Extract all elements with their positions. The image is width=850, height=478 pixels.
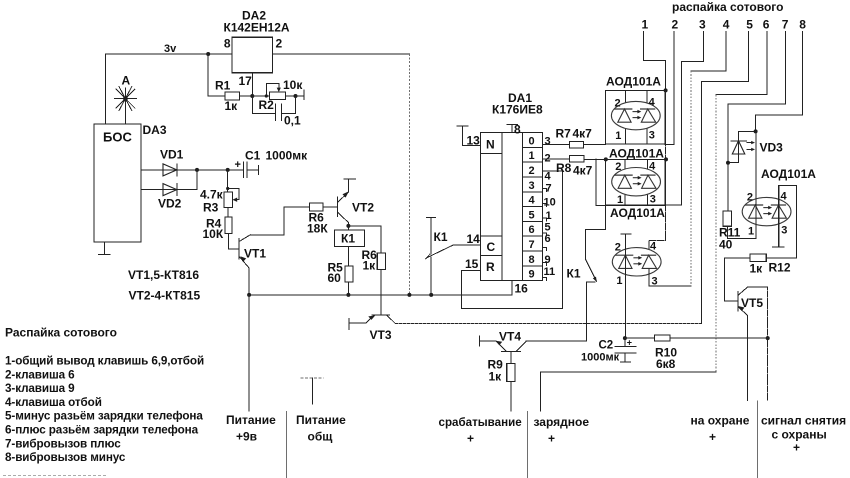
- relay contact K1 right: [586, 260, 597, 282]
- svg-text:5: 5: [746, 18, 753, 32]
- wire phone 5: [701, 32, 748, 324]
- svg-text:7-вибровызов плюс: 7-вибровызов плюс: [5, 437, 121, 450]
- svg-text:8: 8: [224, 37, 231, 51]
- svg-text:R12: R12: [769, 261, 791, 275]
- resistor R12 1к: [766, 257, 796, 259]
- svg-text:7: 7: [529, 239, 535, 251]
- svg-text:+: +: [627, 338, 632, 348]
- node dot bus/K1 contact: [429, 293, 433, 297]
- svg-text:3: 3: [545, 136, 551, 148]
- svg-text:1: 1: [616, 275, 622, 287]
- svg-text:VT1,5-КТ816: VT1,5-КТ816: [128, 268, 199, 282]
- svg-text:2: 2: [672, 18, 679, 32]
- wire rail descent to bus: [408, 54, 410, 295]
- svg-text:3: 3: [529, 180, 535, 192]
- wire DA1 pin15: [461, 269, 480, 271]
- wire node to C1: [197, 169, 244, 171]
- wire opto3 pin3 to phone4: [649, 269, 691, 286]
- svg-text:0: 0: [529, 135, 535, 147]
- svg-text:40: 40: [719, 238, 733, 252]
- svg-text:0,1: 0,1: [284, 114, 301, 128]
- svg-text:1: 1: [617, 194, 623, 206]
- svg-text:10: 10: [544, 197, 556, 209]
- resistor R3 4.7к potentiometer: [227, 170, 229, 192]
- resistor R1 1к: [208, 95, 225, 97]
- svg-text:11: 11: [544, 266, 556, 278]
- svg-text:VD3: VD3: [760, 141, 784, 155]
- svg-text:5-минус разьём зарядки телефон: 5-минус разьём зарядки телефона: [5, 410, 203, 423]
- svg-text:R3: R3: [203, 201, 219, 215]
- svg-text:8: 8: [514, 123, 521, 137]
- svg-text:60: 60: [328, 271, 342, 285]
- svg-text:3: 3: [781, 225, 787, 237]
- svg-text:DA3: DA3: [143, 123, 167, 137]
- svg-text:6: 6: [763, 18, 770, 32]
- svg-text:4: 4: [649, 160, 656, 172]
- terminal питание общ: [301, 377, 324, 379]
- svg-text:4к7: 4к7: [573, 164, 593, 178]
- svg-text:3: 3: [699, 18, 706, 32]
- resistor R6 1к: [377, 253, 385, 270]
- svg-text:срабатывание: срабатывание: [439, 416, 523, 429]
- node dot pin17/R1/R2: [250, 94, 254, 98]
- svg-text:с охраны: с охраны: [772, 428, 827, 442]
- svg-text:VD2: VD2: [158, 197, 182, 211]
- wire left vertical to DA3: [104, 54, 106, 124]
- DA1 output cell dividers: [522, 147, 542, 265]
- svg-text:4: 4: [649, 97, 656, 109]
- transistor VT5: [737, 292, 739, 311]
- separator line 1: [286, 411, 288, 478]
- svg-text:БОС: БОС: [103, 130, 132, 145]
- pinout list lines 1-8: [5, 355, 204, 465]
- svg-text:зарядное: зарядное: [534, 415, 590, 429]
- svg-text:1к: 1к: [225, 99, 239, 113]
- svg-text:R: R: [486, 260, 495, 274]
- svg-text:10к: 10к: [283, 78, 303, 92]
- svg-text:6: 6: [529, 224, 535, 236]
- svg-text:4.7к: 4.7к: [200, 188, 224, 202]
- svg-text:+: +: [235, 159, 241, 171]
- wire +9v top rail left: [105, 53, 232, 55]
- svg-text:6к8: 6к8: [656, 357, 676, 371]
- svg-text:VT5: VT5: [741, 296, 763, 310]
- wire R1 branch vertical: [207, 54, 209, 96]
- wire phone 1: [644, 32, 666, 91]
- svg-text:8-вибровызов минус: 8-вибровызов минус: [5, 451, 126, 464]
- svg-text:2: 2: [529, 165, 535, 177]
- svg-text:R1: R1: [215, 79, 231, 93]
- svg-text:Распайка сотового: Распайка сотового: [5, 326, 117, 340]
- svg-text:VD1: VD1: [160, 148, 184, 162]
- svg-text:N: N: [486, 138, 495, 152]
- svg-text:9: 9: [529, 269, 535, 281]
- svg-text:4-клавиша отбой: 4-клавиша отбой: [5, 396, 102, 409]
- svg-text:C1: C1: [245, 149, 261, 163]
- svg-text:распайка сотового: распайка сотового: [672, 0, 783, 14]
- svg-text:АОД101А: АОД101А: [609, 146, 664, 160]
- node dot bus/rail: [407, 293, 411, 297]
- wire reset net pin15 to pin4: [461, 171, 562, 308]
- wire DA2 pin17: [251, 73, 253, 96]
- svg-text:+: +: [548, 432, 555, 446]
- node dot VT2/K1/R6: [346, 224, 350, 228]
- svg-text:2-клавиша 6: 2-клавиша 6: [5, 368, 75, 381]
- svg-text:1к: 1к: [489, 370, 503, 384]
- separator line 2: [527, 411, 529, 478]
- svg-text:2: 2: [615, 161, 621, 173]
- svg-text:15: 15: [465, 257, 479, 271]
- op-amp DA2 box: [232, 37, 273, 72]
- DA1 pin13 terminal: [457, 125, 468, 127]
- svg-text:C: C: [487, 240, 496, 254]
- svg-text:Питание: Питание: [296, 413, 346, 427]
- node dot C1/R3 branch: [226, 168, 230, 172]
- wire opto3 pin1 to C2 node: [623, 336, 627, 340]
- svg-text:4: 4: [650, 241, 657, 253]
- svg-text:1к: 1к: [363, 259, 377, 273]
- terminal bar right of R2: [296, 95, 305, 97]
- svg-text:на охране: на охране: [691, 414, 750, 428]
- wire VT3 collector long line: [395, 323, 701, 325]
- wire bus up to DA1 pin16: [511, 281, 513, 295]
- DA1 pin8 terminal top: [511, 125, 513, 133]
- wire phone 3: [666, 32, 704, 206]
- relay contact K1 left: [426, 217, 435, 219]
- svg-text:R7: R7: [556, 127, 572, 141]
- IC DA3 БОС box: [94, 124, 141, 242]
- diode VD2: [141, 189, 197, 191]
- svg-text:1: 1: [529, 150, 535, 162]
- transistor VT2: [336, 197, 338, 217]
- capacitor C3 0,1: [251, 96, 253, 114]
- node junction dot rail/R1: [206, 52, 210, 56]
- svg-text:2: 2: [747, 191, 753, 203]
- svg-text:R8: R8: [556, 161, 572, 175]
- svg-text:VT4: VT4: [499, 330, 521, 344]
- svg-text:7: 7: [782, 18, 789, 32]
- wire antenna stem: [123, 96, 128, 101]
- svg-text:К1: К1: [567, 267, 581, 281]
- svg-text:5: 5: [529, 209, 535, 221]
- svg-text:1: 1: [615, 130, 621, 142]
- node dot opto2 pin4 corner: [664, 157, 668, 161]
- svg-text:+: +: [467, 432, 474, 446]
- diode VD3: [738, 131, 740, 162]
- svg-text:A: A: [122, 74, 131, 88]
- wire phone 4: [691, 32, 726, 72]
- svg-text:К1: К1: [434, 230, 448, 244]
- wire phone 8: [756, 32, 803, 132]
- svg-text:1: 1: [546, 210, 552, 222]
- wire opto2 to K1 right contact: [586, 205, 606, 259]
- resistor R7 4к7: [542, 144, 569, 146]
- svg-text:4к7: 4к7: [573, 127, 593, 141]
- wire питание +9в drop: [248, 295, 250, 411]
- node dot R5/bus: [346, 293, 350, 297]
- svg-text:Питание: Питание: [226, 413, 276, 427]
- svg-text:VT3: VT3: [370, 328, 392, 342]
- resistor R6 18К: [309, 203, 323, 211]
- faint scan artifact bottom: [3, 475, 108, 477]
- resistor R10 6к8: [625, 337, 655, 339]
- node dot R8/opto2 pin2: [604, 157, 608, 161]
- wire DA2 pin2 rail right: [273, 53, 410, 55]
- svg-text:общ: общ: [308, 430, 334, 444]
- transistor VT3: [372, 314, 390, 316]
- svg-text:VT1: VT1: [244, 247, 266, 261]
- wire phone 7: [728, 32, 786, 211]
- wire VD3 cathode to phone8 node: [739, 130, 756, 132]
- resistor R4 10К: [227, 208, 229, 217]
- resistor R9 1к: [510, 352, 512, 364]
- wire R8 branch to opto2 pin1: [596, 159, 606, 206]
- wire common rail along optos: [649, 90, 666, 256]
- wire VD2 up to VD1 node: [196, 170, 198, 190]
- svg-text:1: 1: [642, 18, 649, 32]
- wire phone 6: [716, 32, 767, 95]
- svg-text:4: 4: [545, 171, 552, 183]
- svg-text:8: 8: [529, 254, 535, 266]
- DA1 pin stubs and pin numbers right side: [542, 189, 546, 281]
- wire phone 2: [665, 32, 674, 145]
- wire R11 to opto4 pin1: [727, 237, 756, 239]
- svg-text:+: +: [793, 441, 800, 455]
- svg-text:VT2-4-КТ815: VT2-4-КТ815: [129, 289, 201, 303]
- wire VD3 anode to phone7 node: [728, 162, 739, 164]
- svg-text:6: 6: [545, 233, 551, 245]
- svg-text:АОД101А: АОД101А: [761, 167, 816, 181]
- resistor R2 10к potentiometer: [252, 95, 269, 97]
- svg-text:10К: 10К: [203, 227, 224, 241]
- svg-text:4: 4: [723, 18, 730, 32]
- DA1 output digits 0-9: [529, 135, 536, 280]
- svg-text:4: 4: [781, 191, 788, 203]
- wire зарядное net: [541, 372, 716, 411]
- svg-text:4: 4: [529, 195, 536, 207]
- wire node to R6 1к: [348, 226, 381, 253]
- svg-text:сигнал снятия: сигнал снятия: [761, 414, 846, 428]
- wire K1 coil to R5: [347, 247, 349, 267]
- separator line 3: [757, 401, 759, 478]
- svg-text:3-клавиша 9: 3-клавиша 9: [5, 382, 75, 395]
- ground terminal under DA3: [104, 242, 106, 255]
- svg-text:+: +: [709, 430, 716, 444]
- svg-text:АОД101А: АОД101А: [606, 75, 661, 89]
- wire VT1 collector staircase to R6: [250, 207, 309, 235]
- diode VD1: [141, 169, 197, 171]
- svg-text:14: 14: [467, 232, 481, 246]
- svg-text:1000мк: 1000мк: [266, 149, 309, 163]
- resistor R11 40: [723, 211, 732, 226]
- svg-text:К176ИЕ8: К176ИЕ8: [492, 103, 543, 117]
- DA1 left column cells N C R: [481, 153, 502, 155]
- svg-text:5: 5: [545, 222, 551, 234]
- resistor R8 4к7: [542, 158, 569, 160]
- node dot VT5 collector / R10: [766, 336, 770, 340]
- svg-text:2: 2: [276, 37, 283, 51]
- svg-text:13: 13: [467, 134, 481, 148]
- wire VT1 emitter to bus: [248, 268, 250, 295]
- relay coil K1: [335, 230, 365, 247]
- svg-text:1000мк: 1000мк: [581, 352, 620, 364]
- svg-text:C2: C2: [599, 340, 614, 352]
- svg-text:R2: R2: [259, 98, 275, 112]
- transistor VT1: [228, 248, 239, 250]
- wire DA1 pin14: [453, 244, 481, 246]
- svg-text:9: 9: [545, 254, 551, 266]
- svg-text:3: 3: [650, 194, 656, 206]
- svg-text:К1: К1: [341, 232, 355, 246]
- svg-text:8: 8: [799, 18, 806, 32]
- svg-text:1-общий вывод клавишь 6,9,отбо: 1-общий вывод клавишь 6,9,отбой: [5, 355, 204, 368]
- capacitor C2 1000мк: [624, 338, 626, 346]
- svg-text:3v: 3v: [164, 43, 177, 55]
- svg-text:16: 16: [515, 282, 529, 296]
- transistor VT4: [479, 336, 481, 346]
- svg-text:17: 17: [239, 74, 253, 88]
- node dot bus/VT1: [247, 293, 251, 297]
- node dot R2 right: [294, 94, 298, 98]
- svg-text:2: 2: [615, 97, 621, 109]
- node dot VD1/VD2: [195, 168, 199, 172]
- node dot rail/opto1 pin4: [664, 88, 668, 92]
- svg-text:2: 2: [615, 241, 621, 253]
- wire +9v bus: [248, 294, 512, 296]
- svg-text:АОД101А: АОД101А: [610, 206, 665, 220]
- svg-text:1: 1: [748, 226, 754, 238]
- svg-text:К142ЕН12А: К142ЕН12А: [224, 21, 290, 35]
- svg-text:7: 7: [546, 183, 552, 195]
- svg-text:18К: 18К: [307, 222, 328, 236]
- svg-text:3: 3: [649, 130, 655, 142]
- svg-text:1к: 1к: [750, 262, 764, 276]
- wire R6 1к bottom to VT3 base: [380, 270, 382, 315]
- svg-text:6-плюс разьём зарядки телефона: 6-плюс разьём зарядки телефона: [5, 424, 199, 437]
- resistor R5 60: [345, 266, 353, 282]
- svg-text:VT2: VT2: [352, 201, 374, 215]
- svg-text:+9в: +9в: [236, 430, 257, 444]
